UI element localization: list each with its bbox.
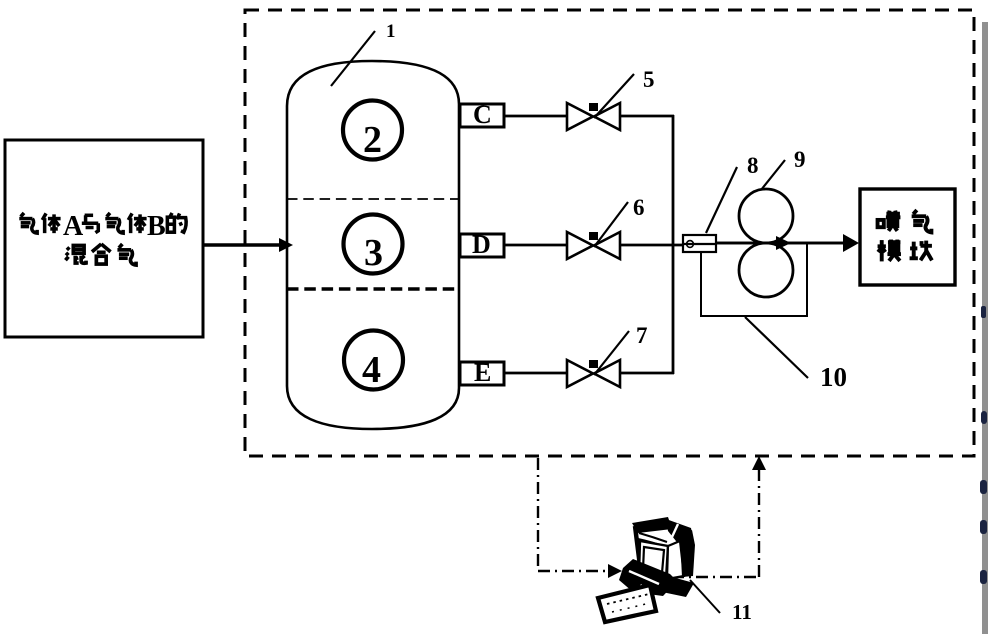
- wire C to valve 5: [504, 115, 566, 118]
- tank divider dashed (thin): [287, 198, 459, 200]
- wire E to valve 7: [504, 372, 566, 375]
- redraw main line over circles: [716, 242, 850, 245]
- svg-text:5: 5: [643, 67, 655, 92]
- svg-text:D: D: [472, 230, 491, 259]
- tank vessel 1 outline: [287, 61, 459, 429]
- wire valve5 to collector: [620, 115, 674, 118]
- case right side black: [680, 530, 695, 577]
- svg-text:4: 4: [362, 349, 381, 391]
- svg-text:C: C: [473, 100, 492, 129]
- arrowhead into tank: [279, 238, 293, 252]
- case top black: [666, 519, 694, 546]
- cropped glyph fragments on right edge: [980, 306, 987, 584]
- wire valve6 to meter 8: [620, 244, 683, 247]
- screen: [643, 547, 664, 573]
- svg-text:9: 9: [794, 147, 806, 172]
- chamber circle 3: [344, 215, 403, 274]
- input box: left rectangle: [5, 140, 203, 337]
- pump rollers 9 (two circles): [739, 189, 793, 243]
- svg-text:B: B: [147, 211, 166, 242]
- monitor top frame band: [632, 517, 672, 533]
- control dash-dot line left: [537, 458, 539, 571]
- dashed system border: [245, 10, 974, 456]
- output text line 2: 模块: [878, 240, 901, 262]
- leader line label 6: [594, 202, 628, 247]
- page edge gray strip: [982, 22, 988, 634]
- main wire to output: [716, 242, 850, 245]
- leader line label 8: [706, 167, 737, 233]
- svg-text:8: 8: [747, 153, 759, 178]
- keyboard key dots: [607, 594, 649, 604]
- chamber circle 2: [343, 101, 402, 160]
- crt right side: [667, 541, 684, 579]
- svg-text:3: 3: [364, 232, 383, 274]
- leader line label 1: [331, 31, 375, 86]
- tank divider dashed (thick): [287, 287, 459, 291]
- valve 5: [567, 103, 620, 130]
- flow meter 8: [683, 235, 716, 252]
- arrowhead into output box: [843, 234, 859, 252]
- keyboard: [598, 585, 656, 622]
- svg-text:1: 1: [386, 21, 396, 42]
- bypass loop 10: [701, 244, 807, 316]
- case foot black: [662, 577, 694, 597]
- valve 7: [567, 360, 620, 387]
- wire: input arrow line: [203, 243, 281, 247]
- svg-text:10: 10: [820, 362, 847, 392]
- bezel outer: [639, 541, 668, 579]
- leader line label 9: [761, 160, 785, 190]
- svg-text:2: 2: [363, 119, 382, 161]
- chamber circle 4: [344, 331, 403, 390]
- base band black: [619, 559, 677, 596]
- arrowhead up to border: [752, 456, 766, 470]
- svg-text:7: 7: [636, 323, 648, 348]
- port box D: [460, 234, 504, 257]
- leader line label 11: [690, 580, 720, 613]
- port box C: [460, 104, 504, 127]
- mid arrowhead: [776, 236, 791, 250]
- input box text line 1: 气体A与气体B的: [19, 211, 186, 242]
- valve 6: [567, 232, 620, 259]
- leader line label 7: [594, 331, 629, 375]
- svg-text:A: A: [63, 211, 84, 242]
- control dash-dot line right: [672, 576, 759, 578]
- svg-text:6: 6: [633, 195, 645, 220]
- crt glass curves: [639, 533, 667, 542]
- output box 喷气模块: [860, 189, 955, 285]
- leader line label 10: [745, 317, 808, 378]
- leader line label 5: [594, 74, 634, 118]
- computer 11: [598, 517, 695, 622]
- wire valve7 to collector: [620, 372, 674, 375]
- wire D to valve 6: [504, 244, 566, 247]
- svg-text:11: 11: [732, 600, 752, 624]
- arrowhead into computer: [608, 564, 622, 578]
- svg-text:E: E: [474, 358, 491, 387]
- input box text line 2: 混合气: [65, 244, 136, 265]
- monitor left frame: [635, 526, 640, 566]
- collector vertical wire: [672, 115, 675, 374]
- port box E: [460, 362, 504, 385]
- output text line 1: 喷气: [878, 211, 901, 231]
